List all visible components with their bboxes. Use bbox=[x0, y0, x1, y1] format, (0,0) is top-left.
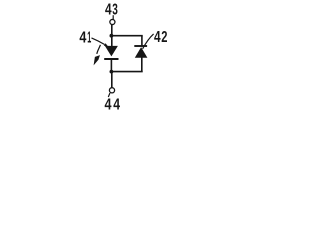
LED 41 triangle bbox=[105, 46, 118, 57]
LED 41 leader arrowhead bbox=[104, 43, 109, 47]
wire left mid vertical bbox=[110, 59, 112, 72]
junction dot top bbox=[110, 34, 114, 38]
node 44 leader tick bbox=[108, 93, 110, 97]
wire top vertical bbox=[111, 25, 113, 47]
junction dot bottom bbox=[110, 70, 114, 74]
svg-text:4: 4 bbox=[154, 29, 161, 46]
svg-text:2: 2 bbox=[161, 29, 167, 46]
node 43 leader tick bbox=[112, 15, 114, 19]
LED 41 light arrow shaft bbox=[97, 45, 101, 54]
diode 42 leader line bbox=[143, 34, 154, 49]
wire right upper vertical bbox=[141, 36, 143, 47]
LED 41 cathode bar bbox=[104, 58, 118, 60]
svg-text:4: 4 bbox=[113, 97, 120, 114]
LED 41 light arrow head bbox=[94, 55, 100, 65]
diode 42 cathode bar bbox=[134, 45, 147, 47]
svg-text:4: 4 bbox=[105, 2, 112, 19]
wire bottom vertical bbox=[111, 72, 113, 88]
terminal 44 circle bbox=[109, 88, 114, 93]
diode 42 triangle bbox=[135, 47, 148, 58]
terminal 43 circle bbox=[110, 19, 115, 24]
svg-text:4: 4 bbox=[79, 30, 86, 47]
svg-text:4: 4 bbox=[105, 97, 112, 114]
LED 41 leader line bbox=[92, 38, 105, 45]
wire top horizontal bbox=[111, 35, 142, 37]
wire right lower vertical bbox=[141, 57, 143, 71]
wire bottom horizontal bbox=[111, 71, 142, 73]
svg-text:1: 1 bbox=[87, 30, 91, 47]
